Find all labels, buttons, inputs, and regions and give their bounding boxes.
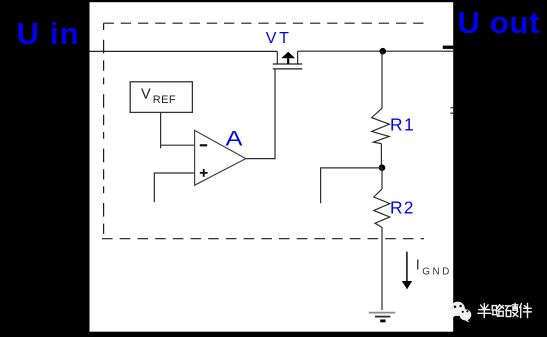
- svg-text:U out: U out: [458, 5, 541, 40]
- svg-text:GND: GND: [422, 266, 452, 277]
- svg-text:R2: R2: [390, 197, 415, 217]
- wire feedback node to R2: [381, 168, 383, 189]
- wire feedback stub to left: [321, 168, 382, 203]
- wire VREF to op-amp inverting input: [161, 112, 195, 148]
- wire output rail: [298, 50, 454, 52]
- current arrow IGND: [402, 252, 412, 290]
- junction node R1/R2: [379, 164, 386, 171]
- label VREF: [141, 86, 176, 105]
- op-amp A: [195, 130, 246, 185]
- wire R1 to feedback node: [380, 144, 382, 168]
- wire R2 to ground: [381, 227, 383, 310]
- watermark text: [478, 303, 532, 317]
- wire op-amp output to VT gate: [246, 69, 275, 159]
- voltage reference box VREF: [130, 82, 192, 113]
- svg-text:U in: U in: [17, 16, 80, 51]
- svg-text:VT: VT: [266, 30, 292, 47]
- watermark logo: [451, 302, 472, 323]
- wire op-amp non-inverting input stub: [154, 173, 194, 202]
- IC boundary dashed box: [102, 23, 424, 239]
- svg-text:REF: REF: [153, 94, 176, 106]
- svg-text:R1: R1: [390, 114, 415, 134]
- resistor R2: [374, 189, 390, 228]
- svg-text:I: I: [416, 258, 420, 274]
- resistor R1: [372, 108, 390, 143]
- output terminal tick: [443, 46, 454, 49]
- svg-text:V: V: [141, 86, 151, 102]
- transistor VT (P-channel MOSFET): [273, 51, 303, 69]
- wire output rail to R1: [381, 51, 383, 108]
- stray edge marks: [450, 107, 453, 114]
- transistor VT body arrow: [281, 52, 295, 64]
- label IGND: [416, 258, 452, 278]
- ground: [369, 313, 396, 321]
- svg-text:A: A: [226, 126, 244, 150]
- wire input rail: [90, 50, 278, 52]
- junction node output rail / R1: [380, 48, 387, 55]
